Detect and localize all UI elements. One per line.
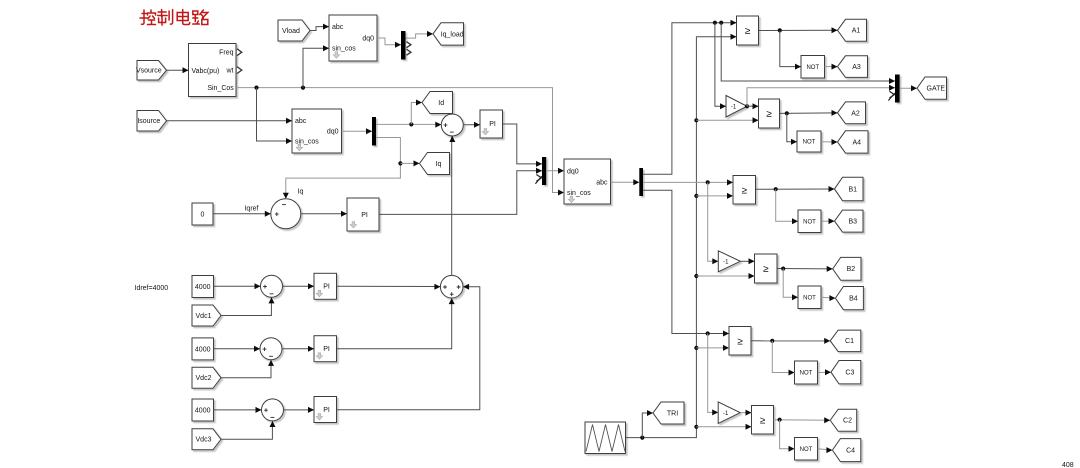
arrowhead into compA in2 [731, 34, 737, 40]
wire compCneg out to NOT C4 [780, 420, 795, 449]
goto tag Iq_load [433, 23, 464, 45]
arrowhead into mux input2 [536, 168, 542, 174]
svg-text:Iq_load: Iq_load [441, 31, 464, 38]
arrowhead into sum dc2 bottom [268, 360, 274, 366]
wire compC out to C1 [751, 340, 830, 342]
svg-text:4000: 4000 [195, 347, 211, 354]
wire NOT C4 to tag C4 [818, 449, 833, 450]
arrowhead into comp Aneg in2 [753, 117, 759, 123]
wire compA out to A1 [759, 29, 838, 31]
svg-text:A2: A2 [851, 110, 860, 117]
wire compCneg out to C2 [774, 419, 831, 422]
sum junction q-axis (Iqref - Iq) [271, 199, 301, 229]
arrowhead into demux1 [395, 42, 401, 48]
unconnected output port Freq [237, 49, 242, 56]
svg-text:abc: abc [295, 118, 307, 125]
wire NOT B4 to tag B4 [821, 296, 835, 299]
block relational >= B [733, 176, 756, 205]
arrowhead into gain B [712, 258, 718, 264]
wire NOT C3 to tag C3 [818, 371, 832, 373]
junction phase B to gain [706, 180, 710, 184]
wire dc total sum up to d-sum [451, 136, 453, 275]
block relational >= B-neg [755, 254, 778, 283]
junction phase C to gain [706, 331, 710, 335]
wire phase C down and right [643, 190, 729, 333]
wire carrier to comp B in2 [696, 195, 733, 197]
svg-text:Sin_Cos: Sin_Cos [207, 85, 234, 92]
arrowhead into d-sum left [435, 122, 441, 128]
arrowhead into q-sum left [265, 211, 271, 217]
wire GATE mux out to GATE tag [900, 87, 917, 89]
svg-text:Idref=4000: Idref=4000 [135, 285, 169, 292]
goto tag A3 [838, 56, 868, 78]
svg-text:≥: ≥ [741, 185, 747, 196]
svg-text:B2: B2 [847, 266, 856, 273]
sum junction dc2 (4000 - Vdc2) [260, 338, 282, 360]
wire demux1 out to Iq_load [406, 34, 434, 38]
unconnected mux input 3 marker [535, 175, 541, 184]
arrowhead into sum dc1 [255, 283, 261, 289]
arrowhead into Iq_load [427, 31, 433, 37]
junction compA out [778, 28, 782, 32]
wire PI dc1 out to total sum [337, 285, 441, 287]
goto tag C4 [832, 439, 860, 462]
from tag Vdc1 [192, 305, 221, 326]
arrowhead into PI dc3 [308, 407, 314, 413]
arrowhead into compB in1 [727, 179, 733, 185]
wire PI dc2 out to total sum bottom [337, 298, 452, 349]
svg-text:abc: abc [596, 180, 608, 187]
junction Sin_Cos at x256 [254, 86, 258, 90]
wire phase B to gain B [708, 182, 719, 261]
junction carrier to TRI [640, 436, 644, 440]
wire PI q out to mux [379, 171, 542, 215]
arrowhead into C2 [824, 417, 830, 423]
unconnected output port wt [237, 67, 242, 74]
wire Vsource to PLL [167, 69, 189, 71]
arrowhead into comp C in2 [723, 345, 729, 351]
demux after Isource dq0 (Id/Iq) [372, 117, 376, 146]
svg-text:C1: C1 [845, 338, 854, 345]
block NOT B4 [798, 286, 821, 309]
block relational >= A [737, 16, 759, 45]
sum junction dc3 (4000 - Vdc3) [262, 399, 284, 421]
wire NOT B3 to tag B3 [821, 220, 835, 222]
svg-text:4000: 4000 [195, 284, 211, 291]
wire branch to TRI tag [642, 413, 653, 438]
arrowhead into compA in1 [731, 20, 737, 26]
wire Sin_Cos branch to Isource dq0 [257, 88, 293, 141]
junction carrier row C [694, 346, 698, 350]
wire gain B out to compBneg [741, 260, 755, 262]
svg-text:≥: ≥ [737, 336, 743, 347]
arrowhead into A1 [832, 27, 838, 33]
svg-text:NOT: NOT [803, 140, 816, 146]
junction phase A to gain [713, 21, 717, 25]
svg-text:NOT: NOT [806, 65, 819, 71]
arrowhead into C1 [824, 338, 830, 344]
wire dq0-abc out to demux3 [611, 181, 640, 183]
block dq0-to-abc [564, 159, 611, 204]
svg-text:NOT: NOT [803, 219, 816, 225]
sum junction dc total (3 inputs) [440, 275, 463, 298]
gain -1 B [718, 251, 740, 272]
junction Sin_Cos at x303 [301, 86, 305, 90]
wire compAneg out to NOT A4 [787, 113, 797, 141]
arrowhead into total sum bottom [449, 298, 455, 304]
svg-text:0: 0 [201, 212, 205, 219]
wire 4000-1 to sum dc1 [214, 285, 261, 287]
svg-text:A3: A3 [852, 64, 861, 71]
goto tag TRI [653, 402, 684, 424]
junction carrier row Bneg [694, 274, 698, 278]
wire compB out to B1 [756, 188, 835, 190]
wire demux2 Id out to d-sum [376, 123, 441, 125]
svg-text:TRI: TRI [667, 410, 678, 417]
wire phase A up and right [643, 23, 737, 175]
svg-text:abc: abc [332, 24, 344, 31]
from tag Vdc2 [192, 367, 221, 388]
svg-text:PI: PI [323, 284, 330, 291]
svg-text:Freq: Freq [219, 50, 234, 57]
arrowhead into NOT B3 [792, 218, 798, 224]
wire gain A out up to GATE mux in2 [747, 88, 895, 107]
block PLL (Vabc pu -> Freq/wt/Sin_Cos) [189, 44, 237, 97]
arrowhead into B3 [829, 218, 835, 224]
wire Vdc1 to sum dc1 [221, 297, 271, 315]
svg-text:C2: C2 [843, 418, 852, 425]
arrowhead into PI d [474, 122, 480, 128]
arrowhead into gain A [720, 103, 726, 109]
svg-text:Isource: Isource [137, 118, 160, 125]
arrowhead into total sum right [463, 284, 469, 290]
wire Vdc2 to sum dc2 [221, 360, 271, 378]
wire carrier bus from generator [626, 37, 737, 438]
block relational >= C [729, 327, 751, 356]
arrowhead into mux input1 [536, 161, 542, 167]
block relational >= C-neg [752, 406, 774, 435]
arrowhead into PI q [341, 211, 347, 217]
wire PI dc3 out loop to total sum right [337, 287, 480, 410]
wire 4000-3 to sum dc3 [214, 409, 262, 411]
block NOT A4 [797, 131, 821, 152]
svg-text:NOT: NOT [800, 447, 813, 453]
svg-text:A1: A1 [852, 28, 861, 35]
svg-text:≥: ≥ [760, 415, 766, 426]
svg-text:PI: PI [323, 346, 330, 353]
arrowhead into Iq tag [414, 160, 420, 166]
arrowhead into sum dc3 bottom [270, 421, 276, 427]
arrowhead into C3 [825, 369, 831, 375]
junction carrier row B [694, 194, 698, 198]
svg-text:A4: A4 [853, 139, 862, 146]
goto tag A4 [838, 131, 869, 153]
demux dq0-to-abc output (a,b,c) [639, 168, 643, 196]
block relational >= A-neg [759, 99, 780, 128]
wire Id branch to goto Id [411, 103, 422, 125]
svg-text:PI: PI [489, 121, 496, 128]
arrowhead into NOT C4 [789, 446, 795, 452]
wire carrier to comp C in2 [696, 347, 729, 349]
arrowhead into total sum left [434, 284, 440, 290]
arrowhead into gain C [712, 409, 718, 415]
goto tag B4 [835, 287, 863, 310]
wire NOT A4 to tag A4 [821, 141, 838, 143]
svg-text:≥: ≥ [766, 109, 772, 120]
svg-text:B1: B1 [849, 186, 858, 193]
wire Sin_Cos bus [236, 88, 564, 193]
svg-text:408: 408 [1062, 462, 1074, 468]
junction carrier row Aneg [694, 118, 698, 122]
arrowhead into B1 [829, 186, 835, 192]
sum junction d-axis (Id - Idc) [441, 114, 463, 136]
block NOT B3 [798, 210, 821, 233]
goto tag Iq [420, 153, 450, 175]
wire carrier to comp Cneg in2 [696, 426, 751, 428]
wire PI d out to mux [503, 124, 543, 164]
arrowhead into A2 [832, 110, 838, 116]
wire const0 to q-sum [213, 213, 271, 215]
block PI dc2 [314, 336, 337, 362]
wire carrier to comp Bneg in2 [696, 275, 754, 277]
wire compC out to NOT C3 [772, 341, 794, 373]
mux GATE (3 inputs) [895, 75, 900, 103]
arrowhead into NOT C3 [789, 370, 795, 376]
block repeating sequence (triangle wave source) [585, 422, 626, 454]
mux d/q to dq0 (2 inputs + unconnected) [542, 157, 546, 185]
svg-text:NOT: NOT [803, 295, 816, 301]
arrowhead into sum dc3 [256, 407, 262, 413]
junction gain A output [745, 104, 749, 108]
arrowhead into B4 [829, 295, 835, 301]
arrowhead into abc2 sin_cos [286, 138, 292, 144]
junction compBneg out [781, 267, 785, 271]
block PI q-axis [347, 198, 379, 231]
goto tag C3 [831, 361, 861, 384]
arrowhead into compAneg in1 [753, 103, 759, 109]
svg-text:Iqref: Iqref [244, 206, 258, 213]
junction compCneg out [778, 418, 782, 422]
block constant 4000 (1) [192, 276, 214, 298]
unconnected GATE mux input 3 marker [888, 91, 894, 100]
arrowhead into comp B in2 [727, 193, 733, 199]
arrowhead into NOT A4 [791, 139, 797, 145]
wire phase C to gain C [708, 334, 719, 413]
block PI dc3 [314, 397, 337, 423]
arrowhead into NOT B4 [792, 294, 798, 300]
arrowhead into sum dc1 bottom [269, 297, 275, 303]
svg-text:GATE: GATE [927, 86, 946, 93]
wire compBneg out to NOT B4 [783, 269, 798, 298]
wire phase A to GATE mux in1 [721, 23, 895, 81]
junction phase A to gate mux [719, 21, 723, 25]
goto tag GATE [917, 77, 947, 99]
arrowhead into abc1 sin_cos [323, 45, 329, 51]
svg-text:dq0: dq0 [327, 129, 339, 136]
arrowhead into Id tag [416, 100, 422, 106]
svg-text:dq0: dq0 [567, 168, 579, 175]
arrowhead into TRI tag [647, 410, 653, 416]
wire compAneg out to A2 [780, 112, 838, 115]
wire compBneg out to B2 [777, 268, 833, 270]
arrowhead into abc1 abc [323, 24, 329, 30]
arrowhead into GATE mux in1 [889, 78, 895, 84]
svg-text:C3: C3 [845, 370, 854, 377]
arrowhead into sum dc2 [254, 346, 260, 352]
svg-text:B4: B4 [849, 296, 858, 303]
wire q-sum to PI q [301, 213, 347, 215]
arrowhead into d-sum bottom [449, 136, 455, 142]
wire 4000-2 to sum dc2 [214, 348, 261, 350]
gain -1 C [718, 402, 740, 424]
arrowhead into abc2 abc [286, 118, 292, 124]
wire sum dc3 to PI dc3 [284, 409, 315, 411]
wire abc2 dq0 out to demux2 [342, 130, 373, 132]
from tag Vsource [136, 61, 167, 81]
goto tag A1 [838, 19, 867, 41]
arrowhead into GATE mux in2 [889, 85, 895, 91]
wire abc1 dq0 out to demux1 [377, 38, 401, 45]
svg-text:4000: 4000 [195, 408, 211, 415]
arrowhead into comp Cneg in2 [746, 424, 752, 430]
wire gain A out to compAneg [747, 105, 759, 107]
arrowhead into PI dc2 [308, 346, 314, 352]
block constant 4000 (2) [192, 338, 214, 360]
junction Id line [409, 122, 413, 126]
goto tag B1 [835, 177, 864, 201]
svg-text:B3: B3 [849, 219, 858, 226]
demux after Vload dq0 (3 outputs) [401, 31, 406, 60]
wire compA out to NOT A3 [780, 30, 801, 66]
wire Vload to abc1 [310, 27, 329, 31]
unconnected demux output 3 [407, 49, 411, 55]
svg-text:≥: ≥ [745, 26, 751, 37]
gain -1 A [726, 96, 747, 118]
block NOT A3 [801, 56, 825, 79]
wire Isource to abc2 [167, 120, 293, 122]
junction carrier row Cneg [694, 425, 698, 429]
block NOT C4 [795, 438, 818, 461]
svg-text:-1: -1 [723, 411, 729, 417]
block PI dc1 [314, 273, 337, 299]
block abc-to-dq0 (Isource) [292, 109, 342, 153]
arrowhead into B2 [827, 266, 833, 272]
from tag Isource [137, 111, 167, 132]
svg-text:dq0: dq0 [362, 35, 374, 42]
svg-text:Vabc(pu): Vabc(pu) [192, 68, 220, 75]
block constant 0 [192, 203, 213, 225]
arrowhead into A3 [832, 64, 838, 70]
wire sum dc1 to PI dc1 [283, 285, 315, 287]
wire phase B to compB [643, 181, 733, 183]
wire carrier to comp Aneg in2 [696, 119, 758, 121]
block abc-to-dq0 (Vload) [329, 15, 377, 61]
goto tag C1 [830, 330, 861, 352]
goto tag A2 [838, 102, 866, 124]
svg-text:PI: PI [361, 212, 368, 219]
wire phase A to gain A [715, 23, 726, 107]
wire d-sum to PI d [463, 124, 480, 126]
from tag Vload [278, 20, 310, 41]
svg-text:Iq: Iq [298, 189, 304, 196]
arrowhead into compCneg in1 [746, 410, 752, 416]
svg-text:PI: PI [323, 407, 330, 414]
wire Vdc3 to sum dc3 [221, 421, 272, 439]
svg-text:NOT: NOT [800, 371, 813, 377]
arrowhead into compC in1 [723, 331, 729, 337]
block constant 4000 (3) [192, 399, 214, 421]
junction compAneg out [785, 111, 789, 115]
svg-text:≥: ≥ [763, 264, 769, 275]
junction compC out [770, 339, 774, 343]
goto tag B2 [833, 257, 861, 280]
arrowhead into A4 [832, 139, 838, 145]
from tag Vdc3 [192, 429, 221, 450]
wire compB out to NOT B3 [776, 189, 798, 221]
arrowhead into NOT A3 [795, 64, 801, 70]
wire sum dc2 to PI dc2 [282, 348, 314, 350]
svg-text:wt: wt [226, 67, 234, 74]
arrowhead into PI dc1 [308, 283, 314, 289]
svg-text:Id: Id [438, 100, 444, 107]
svg-text:Vsource: Vsource [136, 68, 162, 75]
sum junction dc1 (4000 - Vdc1) [261, 275, 283, 297]
goto tag C2 [830, 409, 857, 431]
arrowhead into dq0-abc input [558, 168, 564, 174]
wire NOT A3 to tag A3 [825, 66, 838, 68]
svg-text:Vdc1: Vdc1 [196, 313, 212, 320]
arrowhead into demux3 [633, 179, 639, 185]
svg-text:Vload: Vload [282, 28, 300, 35]
svg-text:Vdc3: Vdc3 [196, 437, 212, 444]
arrowhead into GATE tag [911, 85, 917, 91]
wire mux out to dq0-abc [546, 170, 564, 172]
unconnected demux output 2 [407, 42, 411, 48]
arrowhead into dq0-abc sin_cos [558, 190, 564, 196]
goto tag Id [422, 92, 453, 114]
wire Sin_Cos branch to Vload dq0 [303, 48, 329, 87]
arrowhead into compBneg in1 [749, 258, 755, 264]
svg-text:Iq: Iq [436, 161, 442, 168]
svg-text:-1: -1 [723, 260, 729, 266]
junction Iq line [398, 161, 402, 165]
block PI d-axis [480, 110, 503, 138]
arrowhead into comp Bneg in2 [749, 273, 755, 279]
arrowhead into demux2 [366, 128, 372, 134]
arrowhead into q-sum top [283, 193, 289, 199]
svg-text:-1: -1 [731, 104, 737, 110]
block NOT C3 [795, 361, 818, 384]
goto tag B3 [835, 210, 864, 232]
arrowhead into PLL [183, 67, 189, 73]
wire gain C out to compCneg [740, 412, 751, 414]
wire demux2 Iq out [286, 138, 401, 199]
title text 控制电路 (red, hand-drawn strokes) [140, 10, 208, 26]
wire Iq branch to goto Iq [400, 162, 419, 164]
arrowhead into C4 [826, 447, 832, 453]
svg-text:Vdc2: Vdc2 [196, 375, 212, 382]
svg-text:C4: C4 [846, 448, 855, 455]
junction compB out [774, 187, 778, 191]
